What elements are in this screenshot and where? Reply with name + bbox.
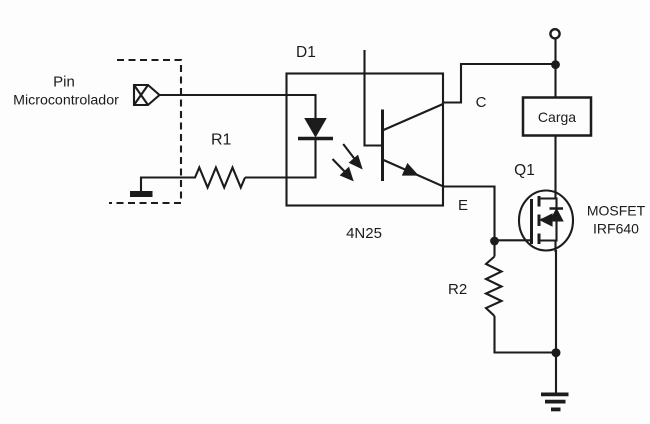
ground (microcontroller side)	[130, 191, 153, 197]
svg-text:E: E	[458, 197, 468, 214]
svg-text:Carga: Carga	[538, 109, 576, 125]
label Pin Microcontrolador	[13, 74, 119, 109]
svg-text:Microcontrolador: Microcontrolador	[13, 93, 119, 109]
wire emitter to gate node	[443, 187, 495, 242]
wire terminal to load	[554, 38, 556, 97]
svg-text:IRF640: IRF640	[593, 221, 639, 237]
load box Carga	[523, 98, 591, 136]
LED light arrows	[333, 144, 362, 180]
wire LED cathode to R1	[245, 140, 316, 178]
svg-text:R2: R2	[448, 281, 467, 298]
LED diode (inside optocoupler)	[298, 119, 333, 139]
svg-text:MOSFET: MOSFET	[587, 203, 646, 219]
wire pin to LED anode	[160, 95, 316, 119]
wire load to MOSFET drain	[554, 136, 556, 195]
phototransistor base lead (pin 6)	[365, 50, 383, 146]
svg-text:Q1: Q1	[514, 162, 535, 179]
wire collector to supply node	[443, 64, 556, 103]
power ground symbol	[541, 394, 569, 409]
resistor R2	[486, 257, 502, 317]
MOSFET Q1	[519, 191, 573, 253]
optocoupler body D1 (4N25)	[287, 74, 444, 206]
junction source-ground node	[552, 348, 561, 357]
svg-text:4N25: 4N25	[346, 225, 382, 242]
phototransistor	[383, 104, 444, 186]
wire gate node to MOSFET gate	[495, 239, 532, 241]
pin terminal symbol	[134, 85, 160, 105]
wire MOSFET source to ground	[555, 250, 557, 393]
wire gate node to R2	[493, 241, 495, 257]
junction gate node	[490, 237, 499, 246]
junction supply node	[551, 60, 560, 69]
resistor R1	[190, 168, 245, 188]
dashed microcontroller boundary	[109, 60, 181, 203]
svg-text:D1: D1	[296, 44, 316, 61]
supply terminal (open circle)	[550, 29, 559, 38]
wire R1 to left ground	[141, 178, 190, 192]
svg-text:Pin: Pin	[53, 74, 75, 91]
wire R2 to ground node	[495, 316, 557, 353]
svg-text:R1: R1	[211, 132, 232, 149]
label MOSFET IRF640	[587, 203, 646, 237]
svg-text:C: C	[476, 94, 487, 111]
